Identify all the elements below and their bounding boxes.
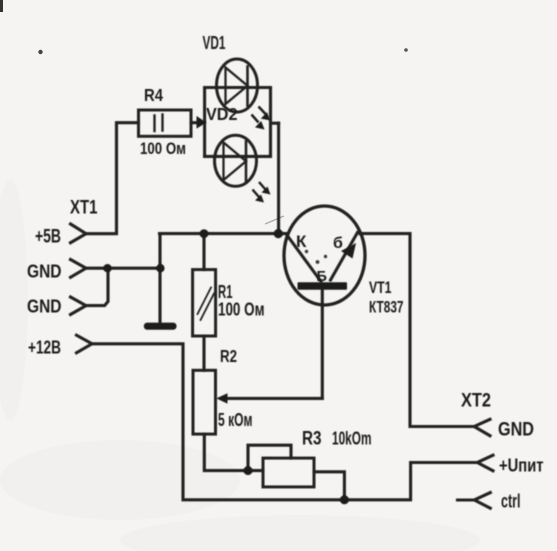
speck 1: [38, 50, 42, 54]
connector XT2 pin +Upit: [477, 455, 493, 471]
svg-text:R2: R2: [220, 346, 237, 366]
svg-text:100 Ом: 100 Ом: [140, 139, 186, 158]
transistor base bar: [298, 282, 348, 290]
resistor R4: [139, 110, 192, 136]
wire emitter to XT2 GND: [360, 234, 474, 427]
svg-text:К: К: [296, 232, 307, 251]
ground symbol: [144, 323, 177, 330]
transistor pin specks: [305, 250, 327, 264]
svg-text:R4: R4: [144, 85, 163, 105]
wire +5V to R4 riser: [86, 123, 139, 234]
resistor R1: [193, 270, 216, 336]
junction arrow at LED node: [197, 116, 207, 129]
LED VD1: [217, 59, 258, 112]
wire GND pin 2 riser: [86, 268, 108, 305]
connector XT1 pin +5V: [71, 224, 87, 243]
svg-text:+12В: +12В: [28, 336, 61, 357]
connector XT1 pin GND1: [71, 260, 87, 278]
speck 2: [404, 48, 408, 52]
wire LED frame top: [205, 86, 271, 89]
svg-text:5 кОм: 5 кОм: [218, 410, 253, 430]
junction node GND pins: [103, 264, 111, 272]
svg-text:XT1: XT1: [70, 198, 98, 219]
wire LED frame right vertical: [269, 88, 272, 157]
wire jog to output: [271, 122, 279, 125]
svg-text:VT1: VT1: [369, 279, 392, 297]
svg-text:R3: R3: [302, 429, 322, 450]
junction node collector-LED: [274, 229, 283, 238]
faint scratch near LED drop wire: [265, 216, 284, 224]
wire R3 right: [314, 472, 344, 500]
svg-text:GND: GND: [27, 295, 62, 316]
svg-text:10kOm: 10kOm: [332, 428, 372, 449]
wire base to wiper: [321, 290, 324, 399]
transistor emitter arrowhead: [341, 243, 356, 259]
potentiometer R2: [193, 370, 216, 434]
wire LED frame left vertical: [203, 88, 206, 157]
wire R4 to LED node: [191, 121, 199, 124]
transistor emitter lead: [331, 233, 358, 281]
svg-text:ctrl: ctrl: [501, 492, 521, 513]
R2 wiper arrowhead: [216, 393, 227, 403]
svg-text:GND: GND: [27, 261, 62, 282]
svg-text:XT2: XT2: [461, 390, 491, 412]
junction node collector-R1: [200, 229, 209, 238]
wire R3 wiper loop: [248, 445, 291, 470]
VD1 emission arrows: [252, 107, 271, 130]
scan smudges: [0, 180, 480, 551]
transistor VT1 body: [284, 206, 365, 305]
connector XT2 pin GND: [474, 419, 490, 435]
potentiometer R3: [263, 458, 314, 487]
wire wiper arrow line: [227, 397, 322, 400]
junction node GND-groundline: [156, 264, 164, 272]
wire node to R1: [202, 234, 205, 270]
svg-text:GND: GND: [498, 420, 534, 441]
VD2 emission arrows: [253, 182, 271, 203]
connector XT2 pin ctrl: [474, 493, 490, 509]
wire LED frame bottom: [205, 155, 271, 158]
scan edge mark top-left: [0, 0, 3, 12]
connector XT1 pin +12V: [77, 335, 93, 353]
svg-text:б: б: [333, 235, 343, 252]
wire +12V bottom rail to +Upit: [92, 344, 477, 500]
svg-text:Б: Б: [317, 269, 327, 285]
wire ctrl stub: [458, 498, 475, 501]
wire LED output drop: [277, 123, 280, 233]
svg-text:100 Ом: 100 Ом: [218, 299, 265, 319]
wire collector line: [160, 232, 288, 235]
wire R1 to R2: [202, 336, 205, 370]
svg-text:VD1: VD1: [203, 33, 226, 53]
LED VD2: [215, 135, 257, 186]
connector XT1 pin GND2: [71, 297, 87, 315]
wire GND pin 1: [86, 267, 160, 270]
svg-text:+Uпит: +Uпит: [499, 454, 544, 475]
junction node R2-R3: [244, 466, 253, 475]
junction node R3-rail: [340, 495, 349, 504]
svg-text:+5В: +5В: [35, 227, 61, 248]
transistor collector lead: [287, 235, 322, 282]
wire ground branch: [158, 234, 161, 323]
wire R2 bottom: [204, 434, 263, 471]
svg-text:VD2: VD2: [206, 104, 238, 124]
svg-text:КТ837: КТ837: [369, 298, 404, 316]
